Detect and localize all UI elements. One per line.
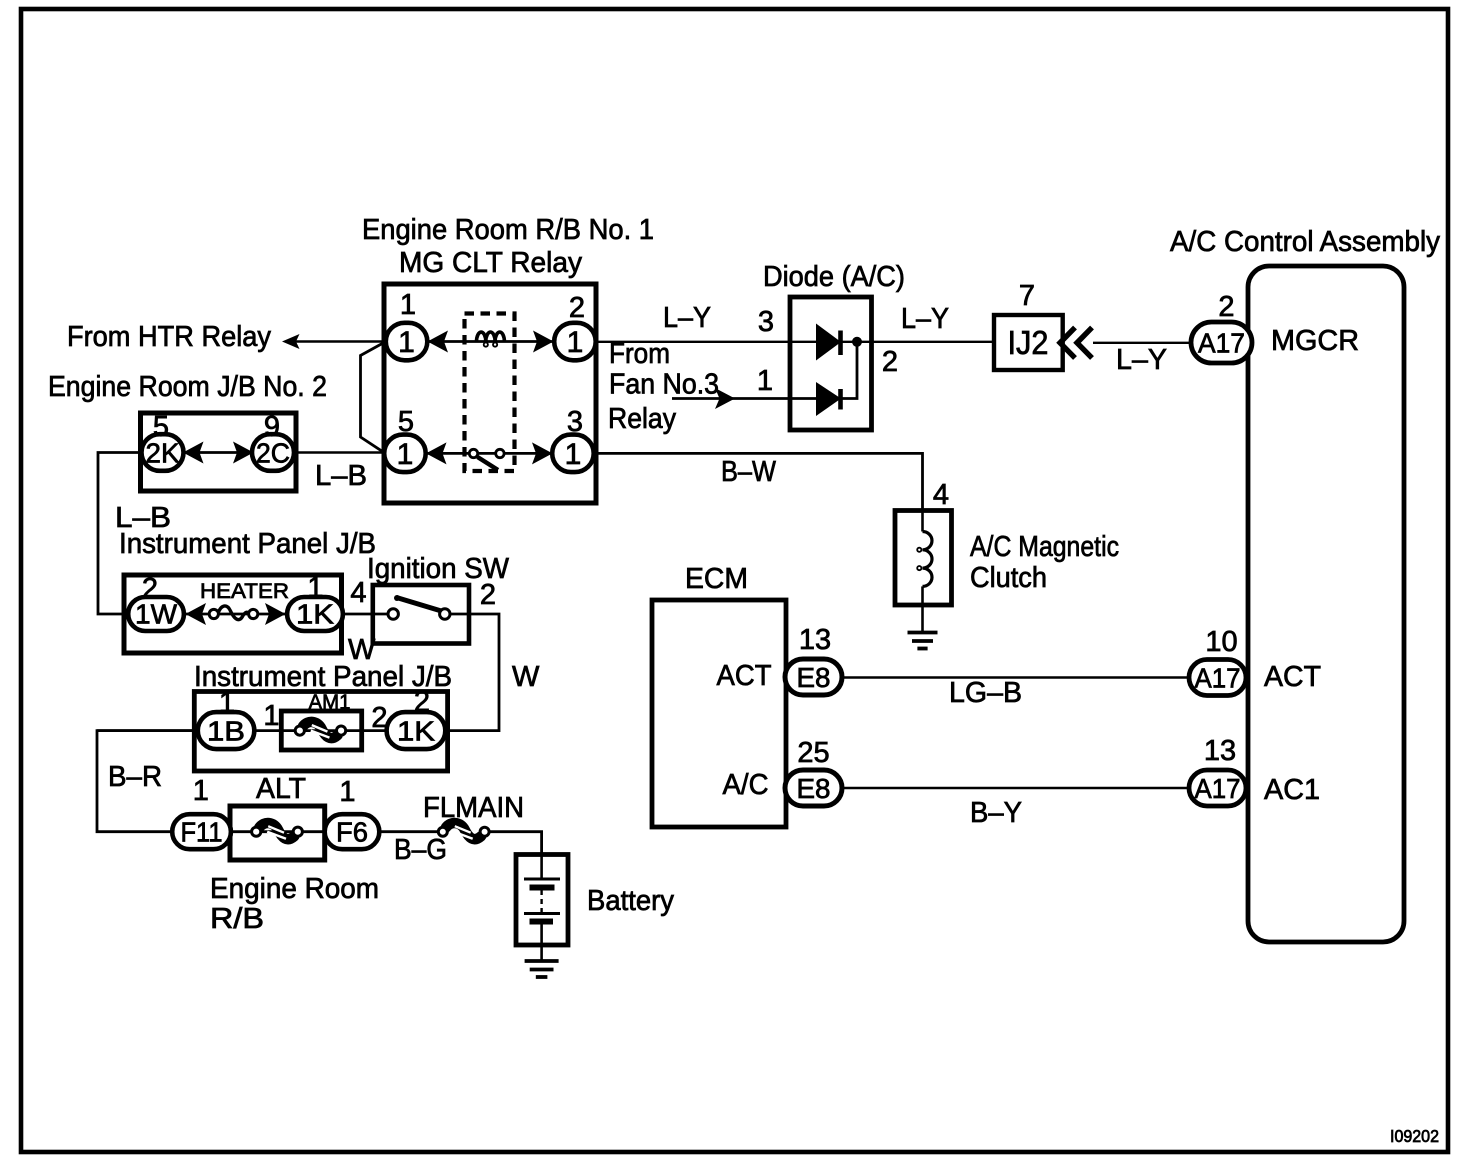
fusible link FLMAIN: [446, 823, 481, 839]
wire B-R trunk 1B down to F11: [97, 731, 194, 832]
connector IJ2: [994, 315, 1063, 370]
svg-text:A17: A17: [1195, 663, 1241, 694]
connector 1K heater: [287, 597, 343, 631]
svg-text:AC1: AC1: [1264, 774, 1320, 806]
relay pin 2 connector: [554, 323, 596, 361]
svg-text:3: 3: [758, 306, 774, 338]
connector 2K: [142, 434, 184, 471]
fuse HEATER: [218, 606, 250, 620]
svg-text:L–Y: L–Y: [663, 302, 711, 334]
svg-text:HEATER: HEATER: [200, 580, 289, 603]
relay pin 1 connector: [386, 323, 428, 361]
svg-text:L–Y: L–Y: [901, 303, 949, 335]
wire W ignition to 1K: [448, 614, 499, 731]
connector A17 (AC1): [1189, 770, 1246, 806]
ignition switch contacts: [397, 598, 444, 612]
junction block Engine Room J/B No. 2: [141, 413, 297, 491]
connector 1W: [128, 597, 184, 631]
svg-text:IJ2: IJ2: [1008, 324, 1049, 361]
svg-text:Engine Room J/B No. 2: Engine Room J/B No. 2: [48, 371, 327, 403]
A/C control assembly box: [1248, 266, 1404, 942]
diode box: [790, 297, 872, 430]
wire to HTR relay with arrow: [287, 340, 384, 342]
svg-text:1: 1: [219, 687, 235, 719]
svg-text:3: 3: [567, 406, 583, 438]
wire battery to ground: [540, 945, 543, 960]
connector 1B: [198, 712, 255, 749]
svg-text:MGCR: MGCR: [1271, 325, 1359, 357]
svg-text:Fan No.3: Fan No.3: [609, 369, 719, 401]
svg-text:7: 7: [1019, 280, 1035, 312]
svg-text:F6: F6: [336, 817, 368, 848]
connector E8 (A/C): [785, 770, 842, 806]
fuse AM1 box: [281, 711, 361, 750]
svg-text:1K: 1K: [397, 716, 435, 747]
svg-text:Engine Room R/B No. 1: Engine Room R/B No. 1: [362, 214, 654, 246]
svg-text:2: 2: [1218, 291, 1234, 323]
A/C magnetic clutch box: [895, 511, 952, 606]
relay MG CLT Relay box: [384, 284, 596, 503]
wire L-Y relay to diode: [596, 341, 790, 343]
svg-text:2: 2: [414, 686, 430, 718]
wire relay contact row: [426, 452, 553, 455]
connector 1K second: [387, 712, 446, 749]
svg-text:I09202: I09202: [1390, 1126, 1439, 1146]
svg-text:A/C Control Assembly: A/C Control Assembly: [1170, 226, 1440, 258]
svg-text:FLMAIN: FLMAIN: [423, 792, 524, 824]
diode D1 (top): [816, 324, 841, 361]
svg-text:ACT: ACT: [717, 660, 772, 692]
svg-text:ECM: ECM: [685, 563, 748, 595]
ground (battery): [525, 959, 559, 963]
svg-text:1: 1: [263, 700, 279, 732]
relay switch contacts: [478, 457, 499, 470]
svg-text:F11: F11: [181, 817, 223, 848]
svg-text:From: From: [609, 338, 670, 370]
svg-text:From HTR Relay: From HTR Relay: [67, 321, 271, 353]
svg-text:LG–B: LG–B: [949, 677, 1022, 709]
svg-text:5: 5: [398, 406, 414, 438]
svg-text:Instrument Panel J/B: Instrument Panel J/B: [119, 528, 376, 560]
svg-text:W: W: [512, 661, 540, 693]
svg-text:ACT: ACT: [1264, 661, 1321, 693]
wire 2K to 2C: [183, 451, 253, 454]
svg-text:Battery: Battery: [587, 885, 674, 917]
wire L-B J/B to relay: [296, 451, 384, 454]
ECM box: [652, 600, 786, 827]
svg-text:4: 4: [350, 577, 366, 609]
switch Ignition SW box: [373, 585, 469, 644]
junction block Instrument Panel J/B (AM1): [194, 692, 447, 772]
svg-text:E8: E8: [797, 662, 831, 693]
svg-text:13: 13: [799, 624, 831, 656]
wire clutch to ground: [921, 605, 924, 631]
wire heater fuse row: [184, 613, 288, 616]
wire B-W relay to clutch: [596, 453, 923, 511]
wire diode internal top: [790, 341, 872, 343]
svg-text:Engine Room: Engine Room: [210, 873, 379, 905]
svg-text:B–R: B–R: [108, 761, 162, 793]
svg-text:Diode (A/C): Diode (A/C): [763, 261, 905, 293]
svg-text:1: 1: [757, 365, 773, 397]
svg-text:2: 2: [882, 346, 898, 378]
connector A17 (MGCR): [1191, 322, 1252, 363]
wire LG-B: [842, 676, 1192, 678]
wire bypass relay pin1 to pin5: [361, 343, 385, 453]
connector chevrons: [1060, 328, 1075, 359]
svg-text:1: 1: [397, 438, 414, 471]
svg-text:25: 25: [797, 737, 829, 769]
wire diode to IJ2: [872, 341, 995, 343]
ground (clutch): [908, 631, 938, 635]
svg-text:1: 1: [193, 775, 209, 807]
svg-text:4: 4: [933, 479, 949, 511]
fuse ALT link: [259, 823, 294, 839]
wire diode internal bottom: [790, 397, 841, 400]
svg-text:1: 1: [400, 289, 416, 321]
svg-text:B–W: B–W: [721, 456, 777, 488]
svg-text:L–Y: L–Y: [1116, 344, 1167, 376]
connector E8 (ACT): [785, 659, 842, 695]
svg-text:E8: E8: [797, 773, 831, 804]
wire chevrons to A17: [1093, 342, 1192, 344]
wire F6 to FLMAIN to battery: [379, 830, 438, 833]
fuse AM1 link: [303, 722, 338, 738]
svg-text:2: 2: [142, 573, 158, 605]
wire from Fan No.3 relay with arrow: [672, 397, 790, 400]
svg-text:L–B: L–B: [315, 460, 367, 492]
svg-text:AM1: AM1: [309, 691, 351, 714]
diode D2 (bottom): [816, 382, 841, 416]
svg-text:ALT: ALT: [256, 773, 306, 805]
svg-text:1B: 1B: [207, 716, 245, 747]
connector F6: [325, 814, 380, 849]
svg-text:2: 2: [569, 292, 585, 324]
fuse ALT box: [230, 806, 325, 860]
wire B-Y: [842, 787, 1192, 790]
clutch coil: [921, 511, 924, 532]
svg-text:1: 1: [398, 326, 415, 359]
svg-text:A17: A17: [1195, 773, 1241, 804]
svg-text:13: 13: [1204, 735, 1236, 767]
wire 1K to ignition switch: [342, 613, 393, 616]
svg-text:A/C Magnetic: A/C Magnetic: [970, 531, 1119, 563]
wire AM1 row: [97, 729, 448, 732]
svg-text:10: 10: [1205, 626, 1237, 658]
svg-text:1: 1: [565, 438, 582, 471]
svg-text:9: 9: [264, 411, 280, 443]
svg-text:Clutch: Clutch: [970, 562, 1047, 594]
connector F11: [172, 814, 231, 849]
svg-text:MG CLT Relay: MG CLT Relay: [399, 247, 582, 279]
svg-text:B–Y: B–Y: [970, 797, 1022, 829]
junction node (diode output): [852, 337, 862, 347]
connector A17 (ACT): [1189, 660, 1246, 696]
relay pin 5 connector: [384, 435, 426, 473]
svg-text:B–G: B–G: [394, 834, 447, 866]
wire ALT row: [230, 830, 325, 833]
svg-text:A17: A17: [1198, 328, 1245, 359]
connector 2C: [252, 434, 294, 471]
wire trunk 2K down to 1W: [98, 453, 141, 615]
svg-text:A/C: A/C: [723, 769, 769, 801]
svg-text:1: 1: [307, 572, 323, 604]
wire diode output link: [841, 342, 857, 399]
wire ignition internal: [444, 613, 469, 616]
svg-text:5: 5: [153, 411, 169, 443]
relay pin 3 connector: [552, 435, 594, 473]
junction block Instrument Panel J/B (heater): [124, 575, 342, 653]
svg-text:R/B: R/B: [210, 903, 264, 935]
relay coil enclosure (dashed): [465, 314, 515, 472]
svg-text:1: 1: [339, 776, 355, 808]
relay coil: [477, 332, 505, 342]
wire relay coil row: [427, 340, 554, 343]
svg-text:1: 1: [567, 326, 584, 359]
battery: [516, 855, 568, 946]
svg-text:Relay: Relay: [608, 403, 676, 435]
svg-text:2: 2: [480, 579, 496, 611]
